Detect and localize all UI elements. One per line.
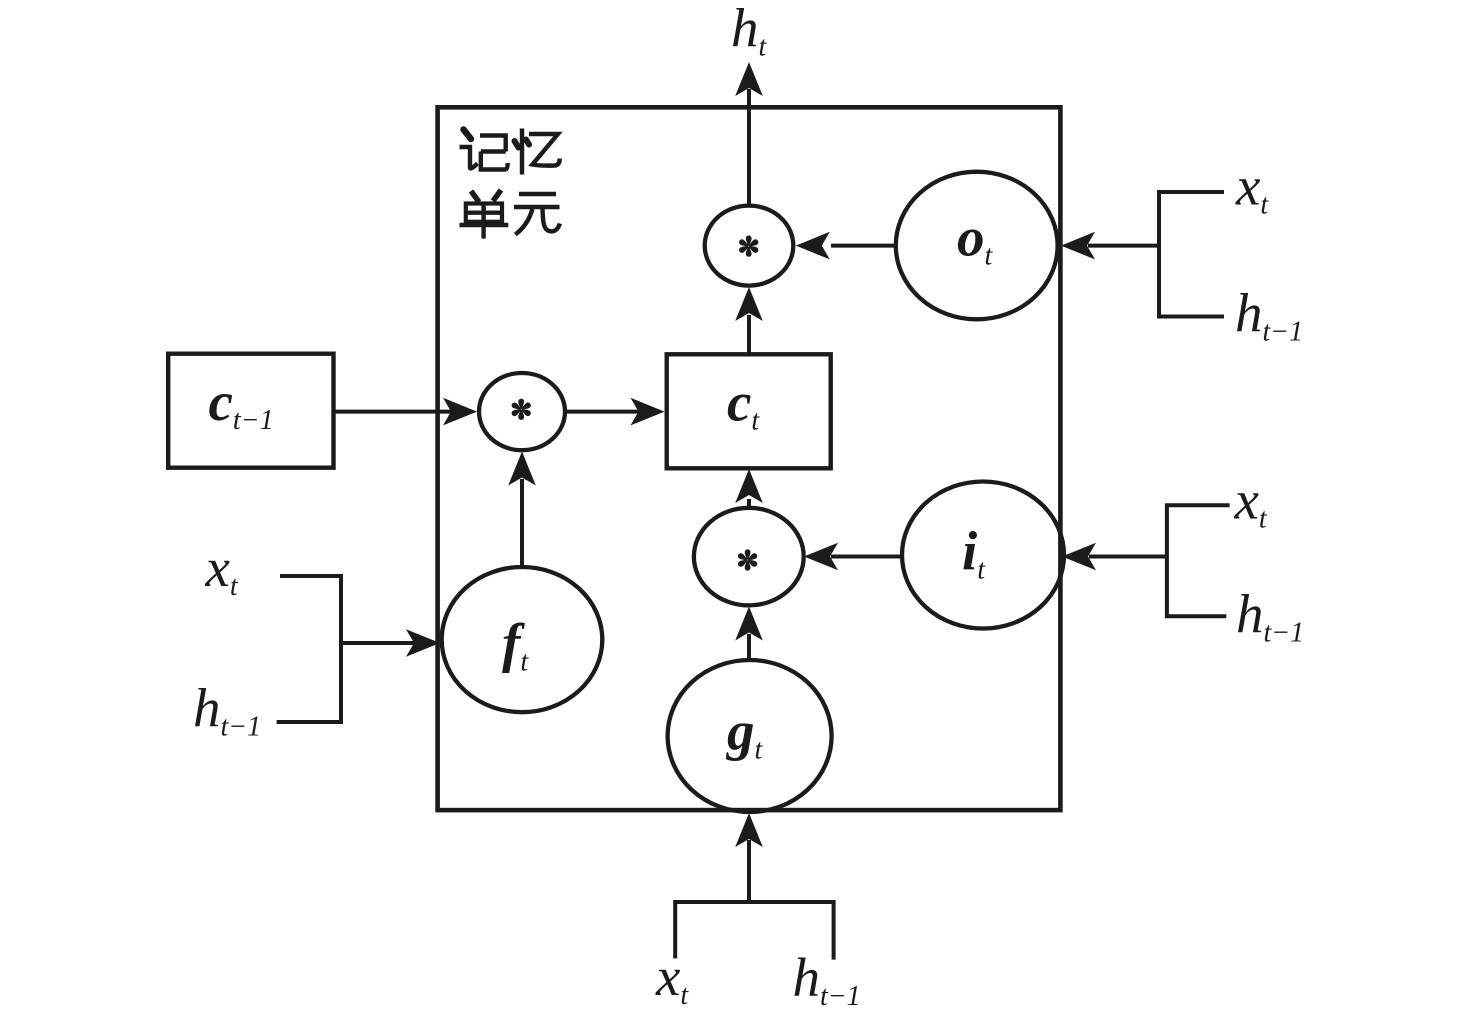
arrowhead into o_t: [1061, 232, 1095, 260]
arrowhead up to h_t: [735, 62, 763, 96]
arrowhead into c_t: [631, 398, 665, 426]
multiply node top: [705, 206, 794, 286]
svg-text:it: it: [962, 520, 986, 585]
svg-text:xt: xt: [1234, 470, 1268, 535]
label 记忆单元: [460, 129, 560, 239]
bracket x_t / h_t-1 (bottom): [675, 902, 833, 960]
svg-text:ht−1: ht−1: [193, 678, 261, 743]
svg-text:gt: gt: [725, 701, 764, 766]
gate i_t circle: [902, 482, 1064, 629]
wire o_t to top multiply: [831, 244, 896, 248]
svg-text:xt: xt: [205, 537, 239, 602]
单: [471, 191, 479, 202]
arrowhead up into g_t: [735, 813, 763, 847]
arrowhead into lower multiply: [804, 543, 838, 571]
svg-text:ct−1: ct−1: [209, 371, 274, 436]
wire c_t to top multiply: [747, 315, 751, 354]
arrowhead lower multiply into c_t bottom: [735, 469, 763, 503]
arrowhead into left multiply: [443, 398, 477, 426]
arrowhead up into top multiply: [735, 287, 763, 321]
asterisk glyph left: [510, 399, 531, 420]
bracket x_t / h_t-1 (left): [277, 576, 341, 722]
svg-text:ht−1: ht−1: [1235, 283, 1303, 348]
svg-text:xt: xt: [655, 946, 689, 1011]
wire i_t to lower multiply: [831, 555, 902, 559]
wire bracket to i_t: [1089, 555, 1167, 559]
wire bottom bracket to g_t: [747, 840, 751, 902]
gate f_t circle: [442, 567, 603, 712]
arrowhead into f_t: [406, 629, 440, 657]
arrowhead into top multiply: [796, 232, 830, 260]
gate o_t circle: [896, 172, 1058, 320]
arrowhead up into lower multiply: [735, 607, 763, 641]
asterisk glyph top: [738, 235, 759, 256]
cell state box c_t: [667, 354, 831, 468]
wire left multiply to c_t: [565, 410, 639, 414]
arrowhead into i_t: [1062, 543, 1096, 571]
arrowhead up into left multiply: [508, 452, 536, 486]
svg-text:ot: ot: [957, 207, 994, 272]
previous state box c_t-1: [168, 354, 333, 468]
svg-text:ht: ht: [731, 0, 768, 63]
忆: [515, 141, 519, 148]
svg-text:ct: ct: [727, 372, 760, 437]
元: [519, 192, 556, 196]
multiply node left: [479, 373, 565, 450]
wire h_t output: [747, 89, 751, 206]
svg-text:ht−1: ht−1: [793, 947, 861, 1012]
wire left bracket to f_t: [341, 641, 415, 645]
asterisk glyph lower: [737, 549, 758, 570]
wire f_t to left multiply: [520, 479, 524, 567]
svg-text:ft: ft: [502, 613, 529, 678]
gate g_t circle: [668, 660, 832, 812]
svg-text:ht−1: ht−1: [1236, 584, 1304, 649]
wire c_t-1 to left multiply: [334, 410, 453, 414]
记: [464, 130, 472, 140]
bracket x_t / h_t-1 (lower right): [1167, 505, 1230, 616]
wire bracket to o_t: [1088, 244, 1159, 248]
wire g_t to lower multiply: [747, 634, 751, 660]
bracket x_t / h_t-1 (top right): [1159, 192, 1224, 317]
svg-text:xt: xt: [1235, 155, 1269, 220]
memory cell box: [438, 107, 1061, 810]
multiply node lower: [694, 508, 804, 606]
